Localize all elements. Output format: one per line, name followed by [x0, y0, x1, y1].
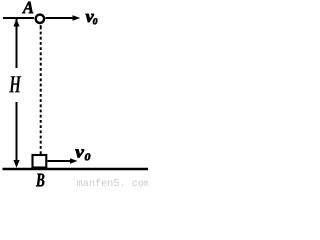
label v0 bottom: v [75, 150, 84, 158]
label v0 bottom: subscript 0 [85, 154, 90, 161]
ground line [3, 168, 149, 171]
wire: dashed trajectory continued [40, 32, 42, 155]
label B [36, 174, 44, 187]
wire: top tick line left of A [3, 17, 34, 19]
label v0 top: subscript 0 [93, 18, 97, 24]
watermark manfen5.com [77, 179, 149, 186]
label v0 top: v [86, 14, 94, 22]
down arrowhead of H line [13, 160, 19, 168]
block at B [33, 155, 47, 168]
label A [22, 2, 33, 14]
dashed trajectory line from A to block [40, 25, 42, 29]
H measure line upper segment [16, 19, 18, 68]
node A circle [36, 15, 44, 23]
label H [9, 76, 21, 92]
wire: top velocity arrow shaft [46, 17, 75, 19]
up arrowhead of H line [13, 19, 19, 27]
H measure line lower segment [16, 102, 18, 161]
arrowhead of bottom velocity arrow [70, 158, 78, 164]
wire: bottom velocity arrow shaft [48, 160, 72, 162]
arrowhead of top velocity arrow [73, 15, 81, 21]
